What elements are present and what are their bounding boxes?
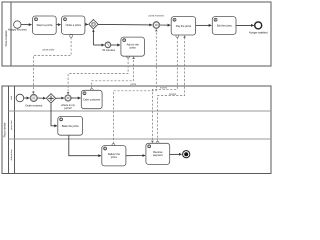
svg-text:Calm customer: Calm customer [83,97,100,101]
svg-text:pizza: pizza [131,83,137,86]
svg-text:pizza: pizza [111,155,118,159]
svg-text:60 minutes: 60 minutes [102,48,115,52]
svg-text:pizza: pizza [130,45,137,49]
svg-text:Hunger satisfied: Hunger satisfied [249,31,268,35]
svg-text:payment: payment [153,153,163,157]
svg-text:Order received: Order received [25,103,42,107]
svg-text:Pizza vendor: Pizza vendor [2,122,6,137]
svg-text:pizza?: pizza? [64,106,72,110]
svg-text:Eat the pizza: Eat the pizza [217,24,232,28]
svg-text:Pay the pizza: Pay the pizza [176,24,192,28]
svg-text:Order a pizza: Order a pizza [66,23,82,27]
svg-text:Select a pizza: Select a pizza [36,23,52,27]
svg-text:pizza order: pizza order [43,49,55,52]
svg-text:money: money [160,87,168,90]
svg-text:pizza chef: pizza chef [11,120,13,130]
svg-text:pizza received: pizza received [149,15,165,18]
svg-text:delivery boy: delivery boy [10,149,13,161]
svg-text:receipt: receipt [169,93,177,96]
svg-text:Bake the pizza: Bake the pizza [62,124,79,128]
svg-text:Pizza Customer: Pizza Customer [5,30,8,46]
svg-text:Hungry for pizza: Hungry for pizza [8,27,27,31]
